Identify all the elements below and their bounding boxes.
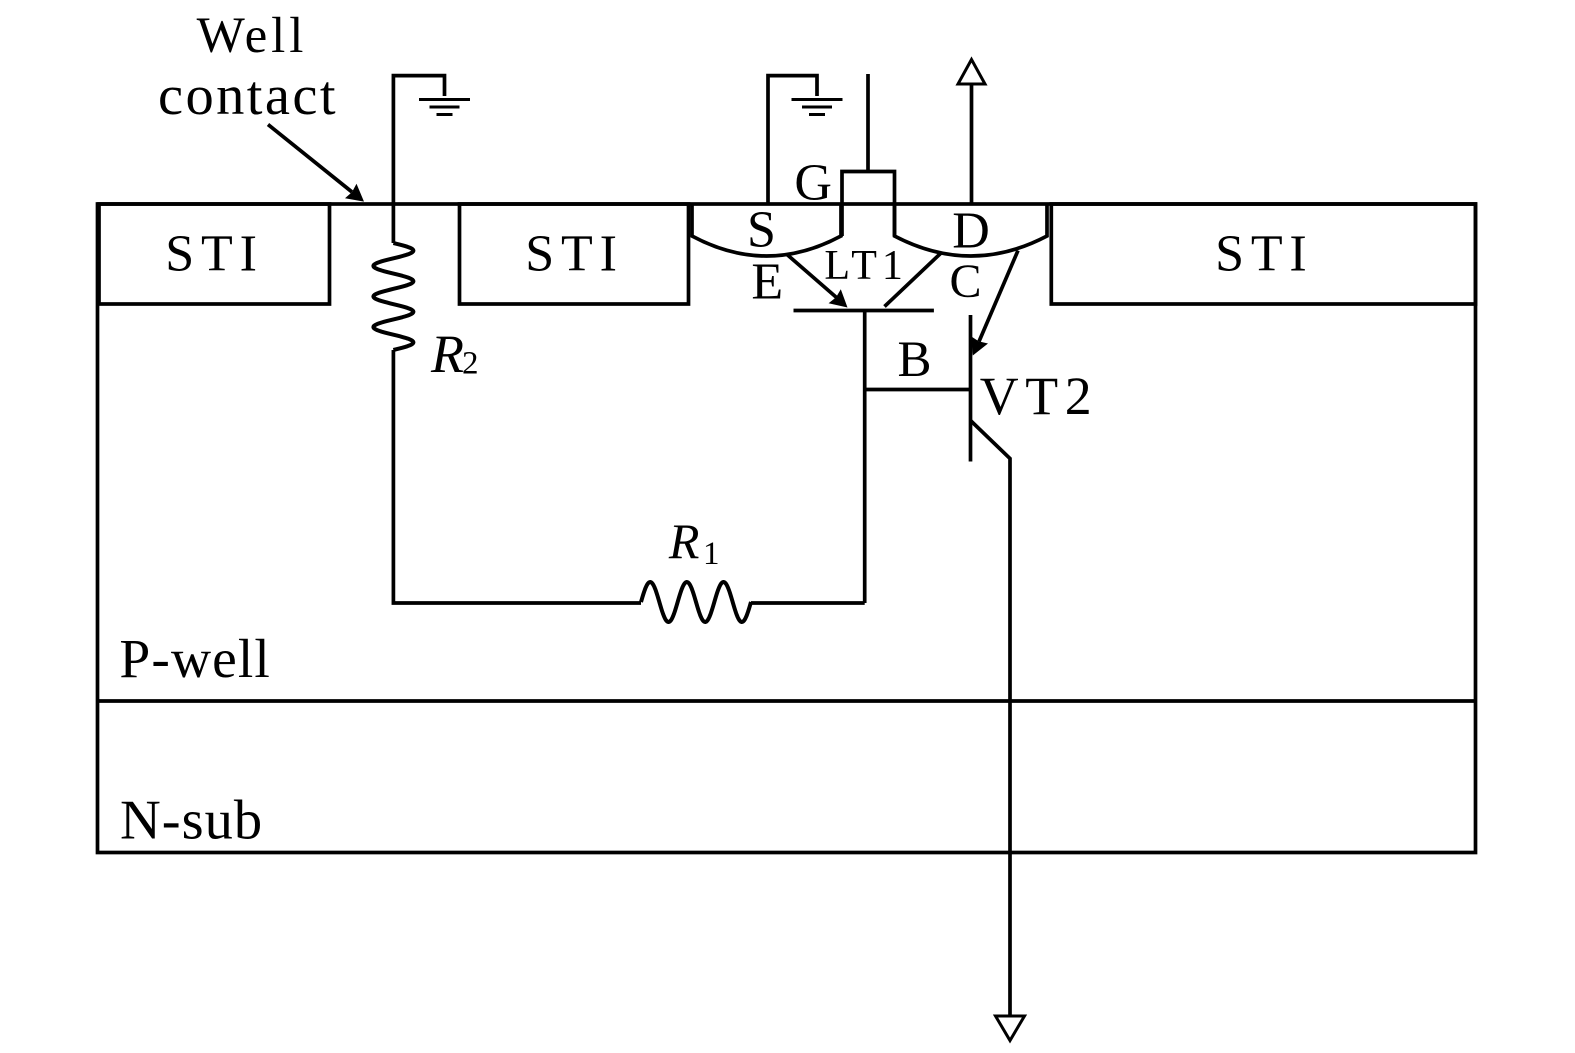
n+ source region S (curved junction) [692, 204, 841, 256]
ground symbol (source) [792, 100, 843, 115]
svg-text:STI: STI [165, 226, 263, 283]
svg-text:2: 2 [462, 346, 479, 382]
svg-text:STI: STI [525, 226, 623, 283]
arrowhead: well contact pointer [345, 184, 364, 202]
svg-text:C: C [949, 255, 981, 308]
svg-text:B: B [897, 332, 931, 388]
svg-text:S: S [747, 202, 776, 259]
substrate body outline [98, 204, 1476, 853]
svg-text:E: E [751, 254, 783, 311]
terminal arrow up (drain) wire [970, 84, 974, 204]
transistor VT2 collector line (from D) [979, 251, 1018, 342]
svg-text:STI: STI [1215, 226, 1313, 283]
svg-text:D: D [952, 203, 990, 260]
n+ drain region D (curved junction) [895, 204, 1048, 256]
transistor VT2 emitter line [971, 421, 1011, 1017]
STI region 3 [1051, 204, 1475, 304]
svg-text:P-well: P-well [119, 629, 271, 690]
wire: R2 upper lead [392, 204, 396, 243]
svg-text:1: 1 [703, 536, 720, 572]
STI region 1 [99, 204, 330, 304]
STI region 2 [460, 204, 689, 304]
svg-text:G: G [794, 155, 832, 212]
resistor R2 [373, 243, 413, 350]
wire: LT1 base down to rail [863, 311, 867, 604]
terminal arrow down head (open) [996, 1016, 1025, 1041]
gate G electrode box [842, 172, 895, 237]
wire: well contact to ground [393, 76, 444, 204]
svg-text:VT2: VT2 [980, 366, 1099, 426]
resistor R1 [641, 582, 751, 622]
transistor LT1 emitter line (from S) [787, 255, 837, 298]
wire: R1 right lead to base node [751, 601, 865, 605]
node B wire to VT2 base [865, 388, 972, 392]
terminal arrow up head (open) [958, 60, 985, 85]
svg-text:Well: Well [197, 8, 308, 64]
wire: R2 lower lead down to bottom rail [393, 350, 641, 603]
wire: source to ground [768, 76, 817, 204]
svg-text:contact: contact [158, 65, 338, 127]
gate wire [866, 74, 870, 172]
svg-text:N-sub: N-sub [120, 790, 263, 852]
transistor LT1 collector line (from D) [885, 253, 942, 307]
P-well / N-sub boundary line [98, 699, 1476, 703]
svg-text:R: R [668, 513, 700, 569]
transistor LT1 base bar [794, 309, 934, 313]
arrowhead: VT2 collector [971, 336, 988, 355]
svg-text:R: R [430, 324, 464, 384]
svg-text:LT1: LT1 [824, 243, 907, 289]
well contact pointer line [268, 125, 352, 193]
ground symbol (well contact) [419, 100, 470, 115]
transistor VT2 base bar [969, 315, 973, 462]
arrowhead: LT1 emitter [829, 289, 848, 307]
